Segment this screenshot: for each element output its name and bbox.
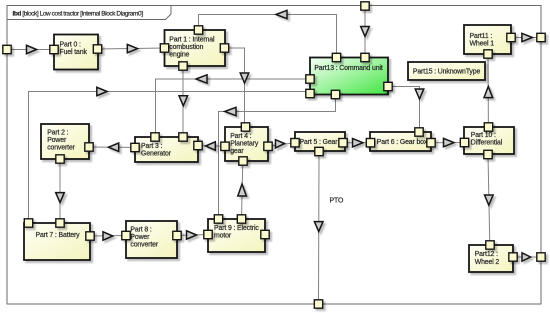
- port Part 6 left: [366, 139, 374, 147]
- svg-text:Wheel 2: Wheel 2: [475, 259, 500, 266]
- svg-text:Planetary: Planetary: [230, 140, 259, 147]
- wire Part 4 right port to Part 5 left port: [268, 143, 295, 147]
- port Part13 right: [384, 82, 392, 90]
- svg-text:engine: engine: [169, 52, 189, 59]
- wire Part 3 left port to Part 2 right port: [89, 146, 135, 149]
- svg-text:ibd [block] Low cost tractor [: ibd [block] Low cost tractor [Internal B…: [13, 10, 144, 17]
- svg-text:gear: gear: [230, 148, 244, 155]
- svg-text:Part11 :: Part11 :: [470, 33, 493, 40]
- svg-text:combustion: combustion: [169, 44, 203, 51]
- wire Part13 bottom port to Part 9 top-left port: [219, 95, 336, 220]
- svg-text:Part 7 : Battery: Part 7 : Battery: [35, 232, 80, 239]
- port Part 4 left: [221, 142, 229, 150]
- svg-text:converter: converter: [47, 145, 75, 152]
- flow arrow right, Part 6 to Part 10: [444, 138, 454, 146]
- svg-text:Fuel tank: Fuel tank: [60, 49, 88, 56]
- flow arrow down, frame-top to Part13: [361, 27, 370, 37]
- svg-text:Part 9 : Electric: Part 9 : Electric: [214, 225, 259, 232]
- wire frame-top port to Part13 top-right port: [364, 6, 366, 58]
- port Part 3 top-left: [151, 133, 159, 141]
- block Part 8 : Power converter: [126, 221, 177, 258]
- port Part 9 top-left: [214, 215, 222, 223]
- flow arrow right, Part 7 to Part 8: [103, 232, 113, 240]
- port Part 9 right: [261, 230, 269, 238]
- svg-text:PTO: PTO: [330, 198, 344, 205]
- block Part 9 : Electric motor: [208, 219, 265, 252]
- port Part 5 bottom: [315, 147, 323, 155]
- flow arrow left, Part 3 to Part 2: [109, 143, 119, 151]
- port Part 0 right: [93, 45, 101, 53]
- block Part 4 : Planetary gear: [225, 127, 268, 161]
- port Part13 lower-left: [306, 89, 314, 97]
- svg-text:Part15 : UnknownType: Part15 : UnknownType: [413, 69, 481, 76]
- block Part15 : UnknownType: [408, 62, 485, 80]
- block Part 2 : Power converter: [41, 124, 89, 159]
- block Part 5 : Gear: [295, 132, 345, 151]
- port Part 4 right: [264, 142, 272, 150]
- wire frame-left to Part 0 left port: [7, 49, 54, 51]
- wire Part 1 bottom port to Part 3 top-right port: [182, 66, 184, 137]
- port Part 6 top: [415, 128, 423, 136]
- flow arrow left, Part13 to Part 3: [196, 75, 207, 83]
- svg-text:Power: Power: [130, 234, 150, 241]
- wire Part 9 top-right port to Part 4 bottom port: [242, 161, 243, 219]
- wire Part 6 right port to Part 10 left port: [431, 142, 465, 144]
- flow arrow down, Part 10 to Part12: [485, 195, 494, 205]
- block Part 10 : Differential: [464, 127, 514, 154]
- port Part 3 top-right: [179, 133, 187, 141]
- svg-text:Part 2 :: Part 2 :: [47, 130, 68, 137]
- svg-text:Differential: Differential: [471, 140, 503, 147]
- wire Part 10 top port to Part11 bottom port: [487, 54, 489, 127]
- port Part 0 left: [50, 45, 58, 53]
- svg-text:Part 10 :: Part 10 :: [471, 132, 496, 139]
- flow arrow right, Part 4 to Part 5: [276, 140, 285, 148]
- port Part 1 left: [160, 44, 168, 52]
- port Part 7 right: [86, 232, 94, 240]
- wire Part 1 right port to Part 4 top port: [225, 48, 245, 127]
- block Part 0 : Fuel tank: [54, 35, 98, 70]
- block Part11 : Wheel 1: [464, 25, 511, 54]
- port Part 6 right: [427, 139, 435, 147]
- block Part12 : Wheel 2: [469, 245, 513, 272]
- block Part 3 : Generator: [135, 137, 198, 162]
- svg-text:Power: Power: [47, 137, 67, 144]
- svg-text:Part 5 : Gear: Part 5 : Gear: [300, 139, 339, 146]
- svg-text:Generator: Generator: [141, 151, 172, 158]
- port on frame right edge (from Part12): [537, 253, 545, 261]
- port Part13 bottom: [331, 90, 339, 98]
- flow arrow right, Part 0 to Part 1: [127, 44, 137, 52]
- port Part12 top: [486, 241, 494, 249]
- flow arrow down, Part 1 to Part 4: [240, 73, 249, 83]
- wire Part 0 right port to Part 1 left port: [98, 48, 165, 49]
- port Part11 right: [507, 33, 515, 41]
- port Part 5 left: [291, 139, 299, 147]
- port on frame bottom edge (PTO): [314, 300, 322, 308]
- flow arrow down, Part 1 to Part 3: [179, 96, 188, 106]
- port Part 10 left: [460, 138, 468, 146]
- port Part13 top-right: [361, 53, 369, 61]
- flow arrow right, Part 7 to Part13: [97, 87, 107, 95]
- port Part 4 bottom: [239, 157, 247, 165]
- block Part 7 : Battery: [24, 223, 90, 260]
- wire Part 7 top-left port to Part13 lower-left port: [29, 92, 311, 224]
- block Part 1 : Internal combustion engine: [165, 30, 226, 66]
- wire Part 7 right port to Part 8 left port: [90, 235, 126, 238]
- flow arrow left, Part13 to Part 9: [225, 107, 236, 115]
- wire Part 8 right port to Part 9 left port: [177, 235, 208, 236]
- port Part 8 right: [173, 231, 181, 239]
- wire Part11 right port to frame-right port: [511, 37, 541, 39]
- port Part13 upper-left: [306, 75, 314, 83]
- wire Part13 top-left port to Part 1 top port: [199, 15, 337, 58]
- port Part 8 left: [122, 231, 130, 239]
- wire Part 2 bottom port to Part 7 top port: [59, 159, 61, 223]
- port Part 1 top: [194, 26, 202, 34]
- port Part 10 bottom: [484, 150, 492, 158]
- flow arrow right, Part12 to frame: [522, 253, 531, 261]
- wire Part13 upper-left port to Part 3 top-left port: [156, 79, 311, 137]
- svg-text:Part 4 :: Part 4 :: [230, 133, 251, 140]
- port Part 4 top: [241, 123, 249, 131]
- flow arrow right, Part 5 to Part 6: [353, 139, 363, 147]
- port Part 7 top-mid: [56, 219, 64, 227]
- flow arrow down, Part13 to Part 6: [415, 89, 424, 99]
- svg-text:Part 6 : Gear box: Part 6 : Gear box: [377, 139, 428, 146]
- port on frame left edge (to Part 0): [3, 45, 11, 53]
- svg-text:Part13 : Command unit: Part13 : Command unit: [314, 65, 383, 72]
- svg-text:Part12 :: Part12 :: [475, 251, 498, 258]
- svg-text:Part 1 : Internal: Part 1 : Internal: [169, 37, 215, 44]
- port Part 1 bottom: [179, 62, 187, 70]
- flow arrow right, Part11 to frame: [522, 33, 532, 41]
- port Part12 right: [509, 253, 517, 261]
- flow arrow right, Part 8 to Part 9: [187, 231, 197, 239]
- wire Part 5 right port to Part 6 left port: [343, 142, 371, 144]
- svg-text:Part 3 :: Part 3 :: [141, 143, 162, 150]
- wire Part12 right port to frame-right port: [513, 256, 541, 258]
- block Part 6 : Gear box: [370, 132, 431, 151]
- port Part 3 right: [194, 141, 202, 149]
- port Part 7 top-left: [24, 219, 32, 227]
- port Part11 bottom: [484, 50, 492, 58]
- svg-text:Part 0 :: Part 0 :: [60, 41, 81, 48]
- flow arrow left, Part13 to Part 1: [276, 10, 287, 18]
- svg-text:motor: motor: [214, 233, 232, 240]
- flow arrow right, on wire to Part 0: [27, 45, 37, 53]
- block Part13 : Command unit: [310, 58, 388, 95]
- port Part 5 right: [339, 139, 347, 147]
- port Part 9 left: [204, 230, 212, 238]
- wire Part13 right port to Part 6 top port: [388, 87, 420, 133]
- port Part 3 left: [131, 143, 139, 151]
- wire PTO Part 5 bottom port to frame-bottom port: [318, 152, 321, 305]
- port on frame right edge (from Part11): [537, 33, 545, 41]
- flow arrow up, Part 10 to Part11: [484, 86, 493, 97]
- flow arrow left, Part 4 to Part 3: [206, 142, 216, 150]
- flow arrow up, Part 9 to Part 4: [238, 184, 247, 196]
- svg-text:Part 8 :: Part 8 :: [130, 227, 151, 234]
- svg-text:Wheel 1: Wheel 1: [470, 41, 495, 48]
- flow arrow down, PTO wire: [314, 222, 323, 232]
- wire Part 10 bottom port to Part12 top port: [488, 155, 490, 246]
- port on frame top edge (to Part13): [361, 2, 369, 10]
- port Part 1 right: [220, 44, 228, 52]
- svg-text:converter: converter: [130, 242, 158, 249]
- port Part13 top-left: [332, 53, 340, 61]
- port Part 9 top-right: [237, 215, 245, 223]
- frame title tab: [7, 6, 171, 20]
- port Part 10 top: [484, 123, 492, 131]
- port Part 2 bottom: [56, 155, 64, 163]
- port Part 2 right: [85, 143, 93, 151]
- wire Part 4 left port to Part 3 right port: [198, 145, 225, 148]
- flow arrow down, Part 2 to Part 7: [56, 193, 65, 203]
